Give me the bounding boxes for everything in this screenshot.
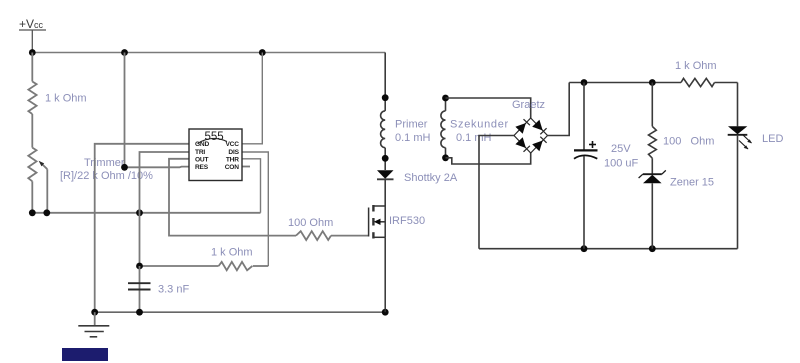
transistor Q1 IRF530 <box>369 205 386 312</box>
svg-text:Shottky 2A: Shottky 2A <box>404 172 458 184</box>
wire top DC rail <box>569 82 681 84</box>
node top-left <box>29 49 36 56</box>
svg-text:TRI: TRI <box>195 149 205 156</box>
node zener bottom <box>649 245 656 252</box>
wire THR pin to trimmer net <box>242 159 261 213</box>
svg-text:25V: 25V <box>611 143 631 155</box>
node trimmer bottom <box>29 209 36 216</box>
svg-text:OUT: OUT <box>195 157 208 164</box>
resistor R6 1 k Ohm output <box>681 78 738 86</box>
node primer top <box>382 94 389 101</box>
wire bottom DC rail <box>479 248 738 250</box>
node cap top right <box>581 79 588 86</box>
svg-text:1 k Ohm: 1 k Ohm <box>675 60 717 72</box>
svg-text:Primer: Primer <box>395 119 428 131</box>
wire szekunder top to bridge <box>446 98 531 118</box>
inductor L2 Szekunder <box>441 98 446 158</box>
svg-text:1 k Ohm: 1 k Ohm <box>45 93 87 105</box>
wire CON stub <box>242 166 250 168</box>
node rail-R2 <box>121 49 128 56</box>
diode bridge bottom-left <box>515 137 530 152</box>
svg-text:VCC: VCC <box>225 141 239 148</box>
IC U1 555 timer <box>189 129 242 181</box>
svg-text:LED: LED <box>762 133 783 145</box>
svg-text:CON: CON <box>225 164 239 171</box>
svg-text:Zener 15: Zener 15 <box>670 177 714 189</box>
node wiper <box>43 209 50 216</box>
capacitor C1 3.3 nF <box>139 266 141 312</box>
resistor R3 1 k Ohm (DIS-cap) <box>140 262 269 270</box>
svg-text:Graetz: Graetz <box>512 99 545 111</box>
LED D3 <box>728 83 752 249</box>
diode bridge top-right <box>532 120 546 135</box>
svg-text:3.3 nF: 3.3 nF <box>158 283 189 295</box>
diode bridge bottom-right <box>532 137 546 152</box>
svg-text:Trimmer: Trimmer <box>84 157 125 169</box>
resistor R5 100 Ohm <box>649 83 657 175</box>
diode D1 Shottky 2A <box>377 170 394 179</box>
node cap bottom <box>136 309 143 316</box>
node szekunder top <box>442 95 449 102</box>
ground <box>78 312 109 337</box>
wire bottom rail <box>95 311 386 313</box>
diode bridge top-left <box>515 119 530 134</box>
svg-text:0.1 mH: 0.1 mH <box>395 132 431 144</box>
node R5 top <box>649 79 656 86</box>
wire szekunder bottom to bridge <box>446 153 531 164</box>
svg-text:IRF530: IRF530 <box>389 215 425 227</box>
svg-text:Szekunder: Szekunder <box>450 119 509 131</box>
svg-text:DIS: DIS <box>228 149 239 156</box>
node szekunder bottom <box>442 154 449 161</box>
wire bridge left to DC minus rail <box>479 136 514 249</box>
svg-text:100 uF: 100 uF <box>604 158 639 170</box>
inductor L1 Primer <box>381 53 386 171</box>
node primer bottom <box>382 155 389 162</box>
node gnd rail <box>91 309 98 316</box>
node RES junction <box>121 164 128 171</box>
resistor R1 1 k Ohm <box>28 53 36 148</box>
wire DIS pin down <box>242 152 268 266</box>
node source rail <box>382 309 389 316</box>
wire VCC pin to rail <box>242 53 262 144</box>
resistor R4 100 Ohm (gate) <box>296 231 369 240</box>
wire trimmer bottom / THR net <box>32 212 260 214</box>
svg-text:100 Ohm: 100 Ohm <box>288 217 333 229</box>
node rail-VCC <box>259 49 266 56</box>
svg-text:1 k Ohm: 1 k Ohm <box>211 247 253 259</box>
node cap top <box>136 263 143 270</box>
node TRI/cap <box>136 209 143 216</box>
wire RES to Vcc rail <box>125 53 190 168</box>
svg-text:+Vcc: +Vcc <box>19 17 44 31</box>
wire bridge right to DC plus rail <box>548 83 570 136</box>
svg-text:GND: GND <box>195 141 209 148</box>
watermark bar <box>62 348 108 361</box>
trimmer potentiometer <box>28 148 47 213</box>
wire GND pin to ground <box>95 144 189 312</box>
svg-text:RES: RES <box>195 164 209 171</box>
+Vcc supply symbol <box>19 30 46 53</box>
capacitor C2 electrolytic <box>574 83 598 249</box>
svg-text:0.1 mH: 0.1 mH <box>456 132 492 144</box>
wire OUT pin to gate wire <box>169 159 296 236</box>
diode D2 Zener 15 <box>639 170 666 248</box>
wire TRI pin to cap node <box>140 152 190 266</box>
svg-text:100 Ohm: 100 Ohm <box>663 136 714 148</box>
svg-text:THR: THR <box>226 157 239 164</box>
rectifier bridge Graetz <box>514 118 548 153</box>
wire top rail <box>32 52 385 54</box>
node cap bottom right <box>581 245 588 252</box>
